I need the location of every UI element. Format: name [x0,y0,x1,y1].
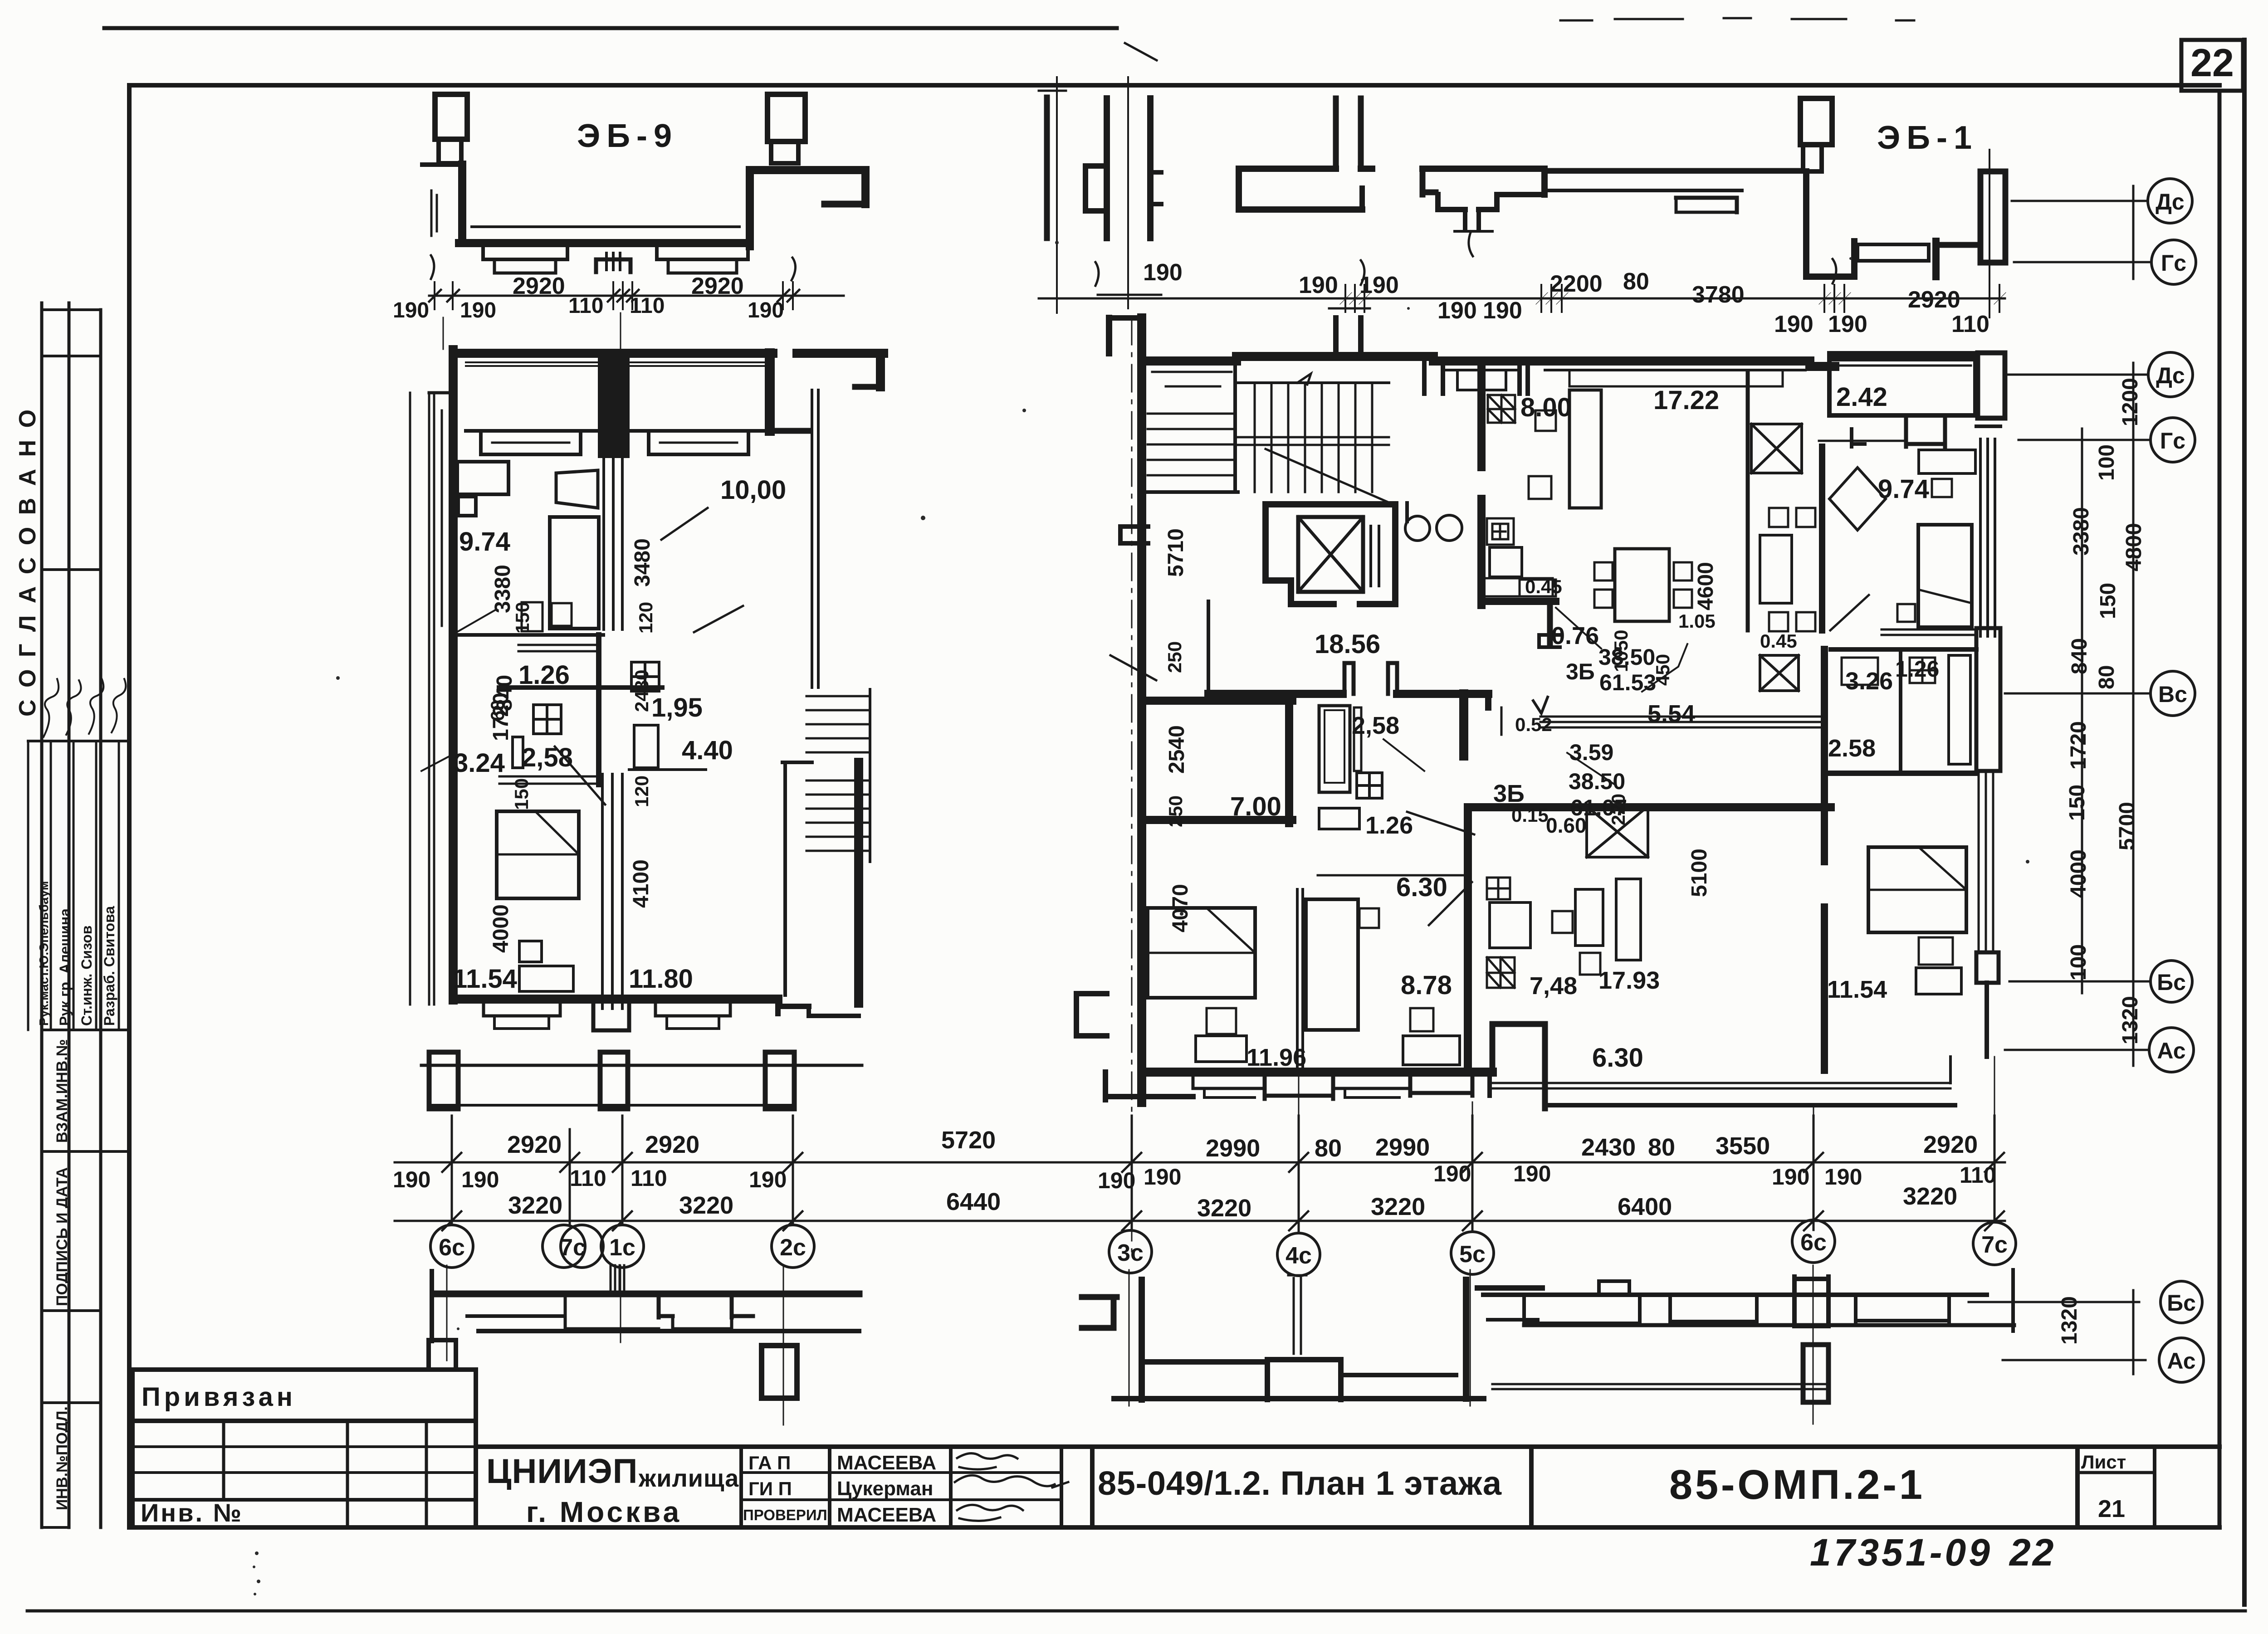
svg-text:190: 190 [1437,298,1477,324]
loggia rail lines under north wall [466,362,764,366]
svg-text:1с: 1с [609,1234,635,1261]
axis 3c dash line [1131,317,1133,1252]
svg-text:7.00: 7.00 [1230,792,1281,821]
svg-text:80: 80 [1648,1134,1675,1161]
svg-text:2.42: 2.42 [1836,382,1887,412]
svg-text:МАСЕЕВА: МАСЕЕВА [837,1452,936,1474]
svg-text:Инв. №: Инв. № [141,1498,243,1527]
wardrobe X between 17.22 and dining [1751,424,1802,473]
svg-text:Гс: Гс [2160,428,2185,454]
east window band of room 10.00 [812,390,818,688]
svg-text:4600: 4600 [1694,562,1718,610]
balcony west outer rail [409,393,411,1005]
stair lower flight [807,780,870,851]
svg-text:220: 220 [1608,794,1629,825]
svg-text:190: 190 [1098,1168,1135,1193]
stairwell left small treads [1148,414,1233,475]
svg-text:3220: 3220 [508,1192,562,1219]
svg-text:5710: 5710 [1164,528,1188,577]
north sill lines west part [1152,372,1232,386]
fridge circle [1437,515,1462,541]
stair upper flight [807,696,870,752]
svg-text:4000: 4000 [2067,849,2091,898]
pier right of entrance [1932,241,1940,277]
svg-text:120: 120 [631,776,652,807]
kitchen 7.48 fixtures [1487,878,1510,899]
svg-text:18.56: 18.56 [1315,629,1380,659]
upper pair leaders [2012,200,2148,202]
svg-text:1200: 1200 [2118,378,2142,426]
svg-text:4100: 4100 [629,859,653,908]
dim ticks bottom rows [442,1153,2004,1230]
svg-text:3с: 3с [1117,1240,1144,1266]
west wall [1137,318,1146,1102]
kitchen 8.00 west wall [1477,361,1486,467]
svg-text:17.93: 17.93 [1598,967,1660,994]
svg-text:ЭБ-1: ЭБ-1 [1877,120,1978,156]
svg-text:190: 190 [393,1167,430,1192]
svg-text:150: 150 [2065,785,2089,821]
T pier with band, centre [1336,98,1361,169]
svg-text:ПРОВЕРИЛ: ПРОВЕРИЛ [743,1507,827,1523]
svg-text:0.52: 0.52 [1515,714,1552,735]
svg-text:7,48: 7,48 [1530,972,1577,1000]
rotated dim texts right edge [2058,378,2146,1345]
lobby door circle [1405,516,1430,541]
svg-text:110: 110 [630,294,665,318]
bed single room 9.74 [550,517,599,629]
svg-text:1.26: 1.26 [1895,656,1939,682]
stub pier above at stair [1336,318,1361,356]
south sill steps [1193,1076,1265,1088]
svg-text:2990: 2990 [1375,1134,1430,1161]
wc block near 7.00 [1319,706,1350,792]
svg-text:110: 110 [570,1166,606,1191]
svg-text:ГИ П: ГИ П [748,1478,792,1499]
svg-text:6400: 6400 [1618,1193,1672,1220]
svg-text:2.58: 2.58 [1828,735,1876,762]
svg-text:5.54: 5.54 [1647,700,1695,727]
svg-text:80: 80 [1315,1135,1342,1162]
wardrobe X tall [1587,806,1648,857]
north wall left bay [453,349,601,358]
lower pair leaders [1969,1301,2139,1303]
beds and furniture sw apartment [1148,908,1255,998]
elevator shaft [1266,504,1395,604]
balcony 2.42 [1829,353,1975,415]
svg-text:1.05: 1.05 [1678,610,1716,632]
entrance sill steps [1857,244,1929,261]
svg-text:9.74: 9.74 [1878,474,1929,504]
shkaf 3-line partition east of hall [1540,717,1826,727]
svg-text:3Б: 3Б [1566,659,1595,684]
svg-text:2920: 2920 [1908,287,1960,313]
dim line upper-right strip [1039,298,2005,300]
svg-text:6с: 6с [1800,1229,1827,1256]
U wall right vertical [746,170,754,246]
svg-text:Привязан: Привязан [142,1382,296,1412]
svg-text:7с: 7с [560,1234,586,1261]
north sill band right bays [1443,369,1520,371]
double bed room 11.54 [497,811,579,898]
svg-text:жилища: жилища [638,1465,739,1492]
svg-text:190: 190 [1483,298,1522,324]
svg-text:Бс: Бс [2167,1290,2196,1316]
svg-text:38.50: 38.50 [1569,769,1625,794]
svg-text:Вс: Вс [2158,682,2187,707]
svg-text:6.30: 6.30 [1592,1043,1643,1073]
svg-text:250: 250 [1164,641,1185,673]
svg-text:17.22: 17.22 [1653,385,1719,415]
title block: main row [476,1447,2219,1527]
svg-text:3480: 3480 [631,538,655,587]
svg-text:2с: 2с [780,1234,806,1261]
title block: left small table [132,1370,476,1527]
svg-text:110: 110 [1951,311,1989,337]
svg-text:9.74: 9.74 [459,527,510,556]
svg-text:3220: 3220 [1371,1193,1425,1220]
svg-text:3780: 3780 [1692,282,1745,308]
svg-text:Гс: Гс [2161,250,2186,276]
svg-text:250: 250 [1165,795,1186,827]
svg-text:0.76: 0.76 [1551,622,1599,649]
svg-text:1050: 1050 [1610,630,1632,672]
kitchen south wall + jog [1481,598,1556,605]
U wall bottom [459,239,750,247]
svg-text:ИНВ.№ПОДЛ.: ИНВ.№ПОДЛ. [54,1406,71,1510]
svg-text:ГА П: ГА П [748,1452,791,1473]
svg-text:7с: 7с [1981,1232,2008,1258]
svg-text:80: 80 [1623,268,1649,295]
svg-text:0.45: 0.45 [1760,630,1797,652]
svg-text:190: 190 [1359,272,1399,298]
svg-text:6с: 6с [439,1234,465,1261]
svg-text:3550: 3550 [1716,1132,1770,1160]
svg-text:2990: 2990 [1206,1135,1260,1162]
north wall right bay [627,349,773,358]
svg-text:1320: 1320 [2118,996,2142,1044]
signature rows separators [51,741,119,1030]
south sill steps windows [484,1003,560,1016]
svg-text:3220: 3220 [1903,1183,1957,1210]
svg-text:450: 450 [1652,654,1673,686]
axis dash stubs bottom [1298,1070,1300,1161]
svg-text:6440: 6440 [946,1188,1001,1215]
svg-text:190: 190 [1772,1164,1809,1190]
corner pylon NE [1978,353,2005,418]
svg-text:190: 190 [393,298,429,322]
svg-text:1.26: 1.26 [1365,812,1413,839]
svg-text:Бс: Бс [2157,970,2186,995]
svg-text:110: 110 [631,1166,667,1191]
gap pier left of 3c [1044,98,1050,238]
svg-text:190: 190 [1828,311,1867,337]
svg-text:5720: 5720 [941,1127,996,1154]
svg-text:2920: 2920 [645,1131,699,1158]
main stair treads vertical [1255,383,1372,492]
partition between bedrooms [1297,889,1303,1069]
chimney column right [767,94,805,141]
svg-text:110: 110 [568,294,603,318]
west wall [449,350,458,1000]
south wall right plan [1142,1068,1492,1077]
svg-text:Дс: Дс [2156,363,2185,388]
svg-text:2920: 2920 [691,273,744,299]
svg-text:85-049/1.2. План 1 этажа: 85-049/1.2. План 1 этажа [1098,1464,1502,1502]
svg-text:2480: 2480 [631,670,652,712]
U wall left vertical [458,165,466,243]
svg-text:22: 22 [2190,41,2234,85]
se rooms partitions [1831,647,1976,652]
svg-text:190: 190 [749,1167,787,1192]
east pier [765,353,775,431]
svg-text:85-ОМП.2-1: 85-ОМП.2-1 [1669,1462,1923,1508]
svg-text:5100: 5100 [1687,849,1711,897]
porch line + columns [421,1064,862,1067]
balcony west double rail [429,393,434,1005]
svg-text:1720: 1720 [489,693,513,741]
central pier [599,350,628,457]
svg-text:8.78: 8.78 [1401,971,1452,1000]
signature scribbles [44,678,126,737]
svg-text:11.54: 11.54 [1827,976,1887,1003]
svg-text:100: 100 [2067,944,2091,980]
svg-text:80: 80 [2095,665,2119,689]
svg-text:840: 840 [2068,638,2092,674]
svg-text:2920: 2920 [513,273,565,299]
central shaft 3 lines upper [604,457,622,629]
svg-text:190: 190 [461,1167,499,1192]
wall stub at 0.52 [1501,707,1503,735]
east apartment wall [1819,447,1825,630]
svg-text:3220: 3220 [679,1192,733,1219]
chimney of right section [1800,98,1832,145]
svg-text:0.45: 0.45 [1525,576,1562,597]
svg-text:2920: 2920 [1923,1131,1978,1158]
wardrobe top-left [457,462,508,494]
svg-text:3.26: 3.26 [1845,668,1893,695]
svg-text:190: 190 [1299,272,1338,298]
door diagonal hall [1407,812,1474,834]
room 17.93 table + chairs [1575,889,1603,946]
south east corner step [778,999,809,1014]
svg-text:100: 100 [2095,444,2119,481]
svg-text:22: 22 [2009,1531,2055,1574]
svg-text:190: 190 [1433,1161,1471,1186]
paper top edge line [104,26,1117,30]
svg-text:2,58: 2,58 [522,743,573,772]
north wall main [1142,356,1237,366]
svg-text:190: 190 [1143,259,1183,286]
svg-text:Цукерман: Цукерман [837,1478,933,1500]
svg-text:Рук.гр. Алешина: Рук.гр. Алешина [57,908,73,1026]
svg-text:1320: 1320 [2058,1296,2082,1345]
kitchen stove hatch [1488,395,1515,423]
svg-text:ЭБ-9: ЭБ-9 [577,118,678,154]
svg-text:3Б: 3Б [1493,780,1525,807]
svg-text:150: 150 [512,602,533,634]
living 17.22 furniture [1569,390,1601,508]
svg-text:С О Г Л А С О В А Н О: С О Г Л А С О В А Н О [15,407,41,717]
bath walls [499,685,662,690]
svg-text:11.96: 11.96 [1246,1044,1306,1071]
svg-text:Ст.инж. Сизов: Ст.инж. Сизов [78,926,95,1026]
svg-text:0.15: 0.15 [1511,805,1549,826]
svg-text:5700: 5700 [2115,802,2139,850]
svg-text:0.60: 0.60 [1546,814,1587,837]
svg-text:1.26: 1.26 [518,660,570,690]
svg-text:4с: 4с [1286,1243,1312,1269]
svg-text:190: 190 [1144,1164,1181,1190]
sheet number box 22 [2181,40,2243,91]
svg-text:3.24: 3.24 [454,748,505,778]
top-right hook wall [750,166,865,174]
dimension labels row2 [508,1183,1957,1222]
svg-text:ПОДПИСЬ И ДАТА: ПОДПИСЬ И ДАТА [54,1167,71,1306]
svg-text:3220: 3220 [1197,1195,1251,1222]
axis stubs [443,313,621,349]
svg-text:11.54: 11.54 [453,964,517,994]
svg-text:4000: 4000 [489,904,513,953]
east wall lower [854,762,863,1003]
se bedroom 11.54 furniture [1868,847,1966,932]
svg-text:Рук.маст.Ю.Эпельбаум: Рук.маст.Ю.Эпельбаум [37,881,51,1026]
nightstand + tv [519,941,542,962]
svg-text:11.80: 11.80 [629,964,693,994]
left accessory column grid [40,303,44,1527]
leader diagonals annotations [456,610,495,633]
svg-text:150: 150 [2096,583,2120,619]
svg-text:2200: 2200 [1550,271,1603,297]
ne room 9.74 furniture [1829,468,1886,530]
east hook wall top [773,428,809,434]
svg-text:1,95: 1,95 [651,693,703,722]
room 7.00 [1142,697,1292,705]
svg-text:190: 190 [1774,311,1813,337]
dim line upper-left strip [429,295,844,297]
svg-text:ЦНИИЭП: ЦНИИЭП [486,1452,638,1491]
north sill band bay2 [627,429,767,433]
apartment divider wall south [1464,807,1472,1070]
leader diagonals [1556,608,1601,649]
svg-text:6.30: 6.30 [1396,873,1447,902]
svg-text:2920: 2920 [507,1131,562,1158]
svg-text:3.59: 3.59 [1569,740,1613,765]
svg-text:2,58: 2,58 [1352,712,1399,739]
svg-text:Разраб. Свитова: Разраб. Свитова [101,906,117,1026]
0.45 closet box [1520,580,1556,596]
svg-text:5с: 5с [1459,1241,1486,1268]
corridor south wall [1208,690,1343,698]
svg-text:17351-09: 17351-09 [1810,1531,1993,1574]
svg-text:190: 190 [1513,1161,1551,1186]
dining table + chairs [1760,535,1792,603]
svg-text:21: 21 [2098,1495,2125,1522]
right plan texts [1230,382,1939,1073]
svg-text:Лист: Лист [2081,1451,2126,1473]
stair handrail [783,762,787,995]
svg-text:МАСЕЕВА: МАСЕЕВА [837,1504,936,1526]
svg-text:190: 190 [1824,1164,1862,1190]
6.30 corridor label zone walls [1545,1024,1556,1024]
svg-text:4070: 4070 [1168,884,1193,932]
small vent double line [431,190,437,236]
bedroom 8.78 furniture [1306,899,1358,1030]
shelf double lines [518,645,596,651]
central door stub with marks [596,259,631,272]
svg-text:Ас: Ас [2167,1348,2195,1374]
window sill steps left bay [483,246,567,259]
small 190 labels [393,1161,1996,1193]
rotated captions in left strip [15,407,117,1510]
central shaft 3 lines lower [602,774,622,1009]
dimension labels row1 upper [507,1127,1978,1162]
south central pier [593,1003,629,1030]
balcony rail 6.30 long [1490,1083,1950,1088]
axis vertical stubs to circles [451,1116,453,1224]
svg-text:Ас: Ас [2157,1038,2185,1063]
cupboard in hall 4.40 [634,725,658,768]
left flange wall [422,162,462,167]
bath tub [513,737,523,768]
svg-text:2540: 2540 [1165,725,1189,774]
chimney column left [435,94,467,139]
svg-text:г. Москва: г. Москва [526,1496,682,1528]
3c-5c section [1082,1297,1117,1328]
south wall [453,995,778,1004]
svg-text:61.53: 61.53 [1599,670,1656,695]
drawing frame [129,83,2219,88]
svg-text:150: 150 [511,778,532,810]
svg-text:190: 190 [748,298,784,322]
desk trapezoid [556,470,598,508]
svg-text:120: 120 [635,602,656,634]
east wall blocks and window bands [1976,424,2000,428]
svg-text:1720: 1720 [2067,721,2091,770]
svg-text:ВЗАМ.ИНВ.№: ВЗАМ.ИНВ.№ [54,1039,71,1143]
corner pylon [1980,171,2005,263]
svg-text:10,00: 10,00 [720,475,786,505]
svg-text:190: 190 [460,298,496,322]
north sill band bay1 [466,429,601,433]
svg-text:2430: 2430 [1581,1134,1636,1161]
se bath fixtures [1910,658,1935,683]
svg-text:Дс: Дс [2156,189,2184,215]
left plan texts [453,475,786,994]
kitchen counter + sink [1487,518,1514,545]
handwritten doc number bottom right [1810,1531,2055,1574]
svg-text:3380: 3380 [2069,507,2093,556]
5c-7c porch [1483,1293,1987,1297]
long window band to right of T [1545,168,1803,172]
west flange piers [1120,527,1148,543]
step corner to lower corridor [1492,1021,1545,1027]
scan specks [253,241,2029,1595]
door swing room 10.00 [694,606,743,632]
jog down to entrance [1803,171,1809,277]
interior partition mid [457,633,603,637]
main set leaders [2005,374,2148,376]
washbasin squares [631,662,659,691]
svg-text:4.40: 4.40 [682,736,733,765]
signatures in title block [955,1454,1068,1521]
cross pier at axis 3c [1104,98,1110,238]
window sill steps right bay [657,246,748,259]
svg-text:8.00: 8.00 [1520,393,1572,422]
svg-text:4800: 4800 [2122,523,2146,571]
branch wall down right of corridor [1459,694,1468,756]
